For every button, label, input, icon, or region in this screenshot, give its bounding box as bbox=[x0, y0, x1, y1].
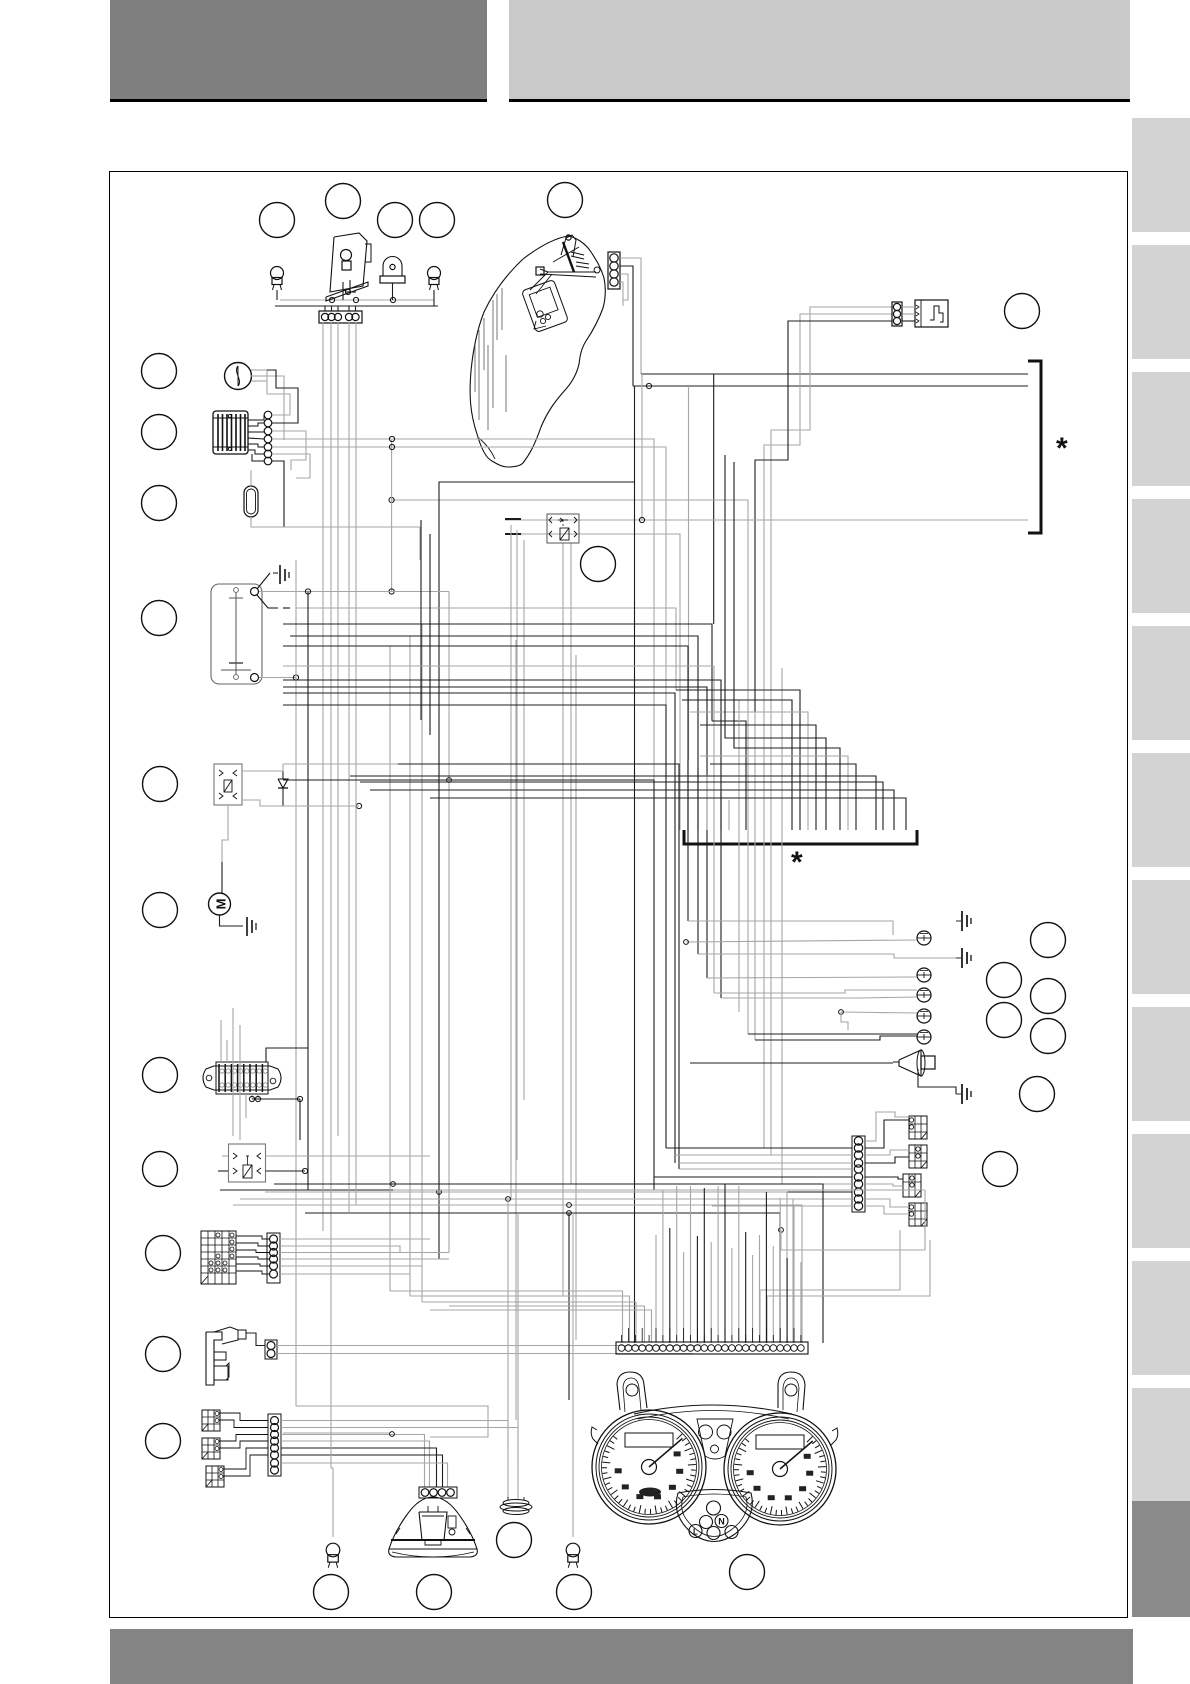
node bus junction a bbox=[329, 297, 334, 302]
wire headlight feed bbox=[515, 640, 517, 1420]
horn bbox=[893, 1050, 935, 1076]
fuel tank filler neck bbox=[553, 235, 579, 272]
wire fuel pump leads bbox=[620, 258, 641, 306]
fuel pump plate bbox=[522, 280, 569, 333]
node callout 24 bbox=[1020, 1077, 1055, 1112]
wire coil top lead bbox=[246, 1333, 265, 1346]
lamp tail light bbox=[326, 233, 371, 301]
node fuse junction 1 bbox=[249, 1096, 254, 1101]
wire switch strip right leads bbox=[281, 1421, 518, 1488]
relay right 3 bbox=[903, 1174, 921, 1197]
connector instrument pins bbox=[616, 1328, 808, 1354]
node tank drop junction bbox=[639, 517, 644, 522]
sensor temp bbox=[917, 1009, 931, 1023]
flasher unit bbox=[225, 363, 252, 390]
wire fuse route right bbox=[299, 1099, 301, 1140]
wire mid h1 bbox=[283, 624, 712, 721]
fusebox bbox=[203, 1062, 281, 1094]
fuel tank lower fold bbox=[479, 438, 495, 459]
wire fusebox verticals bbox=[221, 1008, 258, 1140]
wire horn ground bbox=[918, 1069, 956, 1094]
wire flasher leads bbox=[251, 370, 284, 440]
svg-text:N: N bbox=[718, 1517, 725, 1527]
relay right 4 bbox=[909, 1203, 927, 1226]
wire harness bundle A bbox=[323, 322, 356, 1468]
switch ignition contact top bbox=[251, 588, 259, 596]
wire tank-connector feed down bbox=[632, 277, 634, 386]
relay starter box bbox=[229, 1144, 266, 1182]
wire sensor feeds bbox=[684, 921, 956, 1040]
wire strip-b to pins bbox=[390, 1259, 652, 1343]
svg-text:*: * bbox=[791, 846, 803, 879]
node low j2 bbox=[437, 1190, 442, 1195]
wire coil out 1 bbox=[277, 1343, 700, 1346]
wire capacitor bottom bbox=[251, 517, 420, 527]
switch handlebar 1 bbox=[202, 1410, 220, 1431]
wire battery top lead bbox=[259, 591, 449, 593]
node callout 7 bbox=[142, 354, 177, 389]
wire low h2 bbox=[265, 1192, 787, 1343]
wire instrument bus y386 bbox=[633, 385, 1028, 387]
ground starter bbox=[247, 917, 256, 936]
wire relaybox drop 2 bbox=[570, 543, 572, 1184]
wire relay starter left bbox=[218, 1156, 228, 1171]
sensor side stand bbox=[917, 988, 931, 1002]
gauge logo blob bbox=[639, 1488, 661, 1497]
wire bus y386 drop bbox=[688, 386, 690, 760]
node callout 12 bbox=[143, 893, 178, 928]
svg-text:L: L bbox=[693, 1528, 698, 1537]
node callout 2 bbox=[326, 184, 361, 219]
node callout 9 bbox=[142, 486, 177, 521]
wire relay stub left 2 bbox=[505, 533, 521, 535]
wire bulb drop 2 bbox=[433, 290, 435, 306]
node junction y386 bbox=[646, 383, 651, 388]
wire relay bus 1190 bbox=[220, 1189, 393, 1191]
wire mid h7 bbox=[283, 693, 675, 1163]
wire cluster feed right bbox=[781, 1230, 925, 1250]
wire regulator out 3 bbox=[272, 431, 306, 470]
connector strip switches bbox=[268, 1414, 281, 1476]
wire y482 elbow bbox=[439, 482, 635, 1259]
wire relay-diode bottom bbox=[242, 800, 359, 806]
sensor oil pressure bbox=[917, 968, 931, 982]
wire mid h4 bbox=[283, 666, 714, 993]
wire sensor links bbox=[902, 307, 915, 321]
wire low h3 bbox=[240, 1199, 793, 1343]
fuel level sender rod bbox=[530, 252, 600, 294]
wire regulator leads bbox=[248, 415, 264, 461]
wire bulb drop bbox=[276, 290, 278, 300]
wire bus-to-connector drops bbox=[325, 306, 356, 311]
node callout 10 bbox=[142, 601, 177, 636]
wire battery bottom lead bbox=[259, 677, 296, 679]
wire regulator out 2 bbox=[267, 370, 298, 423]
wire main black vertical bbox=[307, 592, 309, 1191]
wire mid h10 bbox=[398, 764, 679, 1169]
node callout 27 bbox=[730, 1555, 765, 1590]
node fuse junction 3 bbox=[297, 1096, 302, 1101]
ground right 2 bbox=[956, 948, 971, 968]
wire fusebox out dark bbox=[266, 1048, 308, 1062]
wire strip right leads bbox=[280, 1239, 449, 1274]
switch handlebar 3 bbox=[206, 1466, 224, 1487]
wire relay pass y534 bbox=[505, 534, 680, 830]
ground right 1 bbox=[956, 911, 971, 931]
wire regulator out 1 bbox=[267, 381, 290, 415]
wire diode top right bbox=[283, 763, 398, 765]
lamp headlight bulb left bbox=[326, 1543, 340, 1568]
node batt junction 2 bbox=[293, 675, 298, 680]
node batt junction bbox=[305, 589, 310, 594]
instrument cluster body bbox=[617, 1372, 805, 1459]
wire harness C bbox=[511, 525, 576, 1400]
bracket harness middle bbox=[684, 830, 917, 844]
wire tail lamp leads bbox=[343, 280, 356, 300]
headlight housing bbox=[389, 1497, 478, 1557]
node bus junction d bbox=[345, 289, 350, 294]
wire speed-sensor line 3 bbox=[755, 321, 892, 712]
wire low h1 bbox=[274, 1184, 823, 1343]
node callout 3 bbox=[378, 203, 413, 238]
relay starter contacts bbox=[233, 1153, 261, 1178]
bracket harness right bbox=[1028, 361, 1041, 533]
wire pins right group bbox=[760, 1190, 930, 1343]
wire relaybox drop 1 bbox=[562, 543, 564, 1296]
node reg junction 2 bbox=[389, 444, 394, 449]
ground battery switch bbox=[273, 565, 289, 584]
relay lights box bbox=[214, 764, 242, 805]
wire harness B bbox=[390, 592, 449, 1303]
node callout 8 bbox=[142, 415, 177, 450]
wire mid h2 bbox=[290, 636, 698, 954]
fuel tank seam lines bbox=[475, 288, 506, 430]
capacitor oval bbox=[244, 486, 258, 517]
wire x391 link bbox=[391, 440, 393, 592]
wire main gray vertical bbox=[295, 560, 297, 1406]
node callout 13 bbox=[143, 1058, 178, 1093]
wire starter lead bbox=[221, 862, 223, 893]
wire relay starter right2 bbox=[266, 1170, 306, 1172]
wire starter ground lead bbox=[220, 915, 244, 926]
wire capacitor drop2 bbox=[419, 527, 421, 560]
wire capacitor top bbox=[250, 470, 252, 486]
connector lamp harness bbox=[319, 311, 362, 323]
wire switch lower lead bbox=[296, 608, 676, 690]
sensor speed box bbox=[915, 300, 948, 327]
node reg junction 1 bbox=[389, 436, 394, 441]
node callout 19 bbox=[1031, 923, 1066, 958]
wire bulb left drop bbox=[331, 1468, 333, 1537]
ground right 3 bbox=[956, 1084, 971, 1104]
wire bracket feeds bbox=[676, 455, 856, 1184]
wire tank drop 1 bbox=[634, 386, 636, 1343]
wire regulator bus y440 bbox=[272, 439, 654, 780]
node callout 28 bbox=[314, 1575, 349, 1610]
wire low h4 bbox=[233, 1205, 802, 1343]
lamp tail bulb right bbox=[566, 1543, 580, 1568]
wire bottom h B bbox=[296, 1406, 488, 1437]
svg-text:M: M bbox=[214, 899, 229, 910]
wire mid h3 bbox=[283, 646, 688, 921]
node relay junction bbox=[302, 1168, 307, 1173]
wire strip to relays bbox=[865, 1112, 909, 1214]
switch ignition contact bottom bbox=[251, 674, 259, 682]
wire regulator bus y447 bbox=[272, 447, 666, 705]
wire tank-connector feed down 2 bbox=[640, 277, 642, 374]
wire mid h6 bbox=[283, 687, 707, 978]
wire relay down bbox=[222, 805, 228, 862]
connector strip left bbox=[267, 1233, 280, 1283]
diode symbol bbox=[278, 764, 288, 806]
node bus junction c bbox=[390, 297, 395, 302]
node bus junction b bbox=[353, 297, 358, 302]
grommet cap bbox=[500, 1497, 532, 1515]
node callout 16 bbox=[146, 1337, 181, 1372]
lamp front turn signal right bbox=[428, 267, 441, 291]
relay lights contacts bbox=[219, 770, 237, 799]
coil ignition bbox=[206, 1327, 246, 1385]
wire mid h8 bbox=[283, 705, 666, 1148]
wire bottom h A bbox=[283, 1432, 390, 1434]
node callout 29 bbox=[417, 1575, 452, 1610]
connector regulator pins bbox=[264, 411, 272, 465]
gauge speedometer bbox=[724, 1413, 836, 1525]
fuel tank outline bbox=[470, 236, 605, 467]
node callout 25 bbox=[983, 1152, 1018, 1187]
node x391 junction bbox=[389, 589, 394, 594]
node callout 26 bbox=[497, 1523, 532, 1558]
wire instrument bus y374 bbox=[641, 373, 1028, 375]
wire strip feeds left bbox=[654, 1148, 852, 1206]
node callout 20 bbox=[987, 963, 1022, 998]
node callout 11 bbox=[143, 767, 178, 802]
wire bracket right feeds bbox=[350, 776, 906, 830]
wire y500 long bbox=[392, 500, 748, 706]
connector strip right bbox=[852, 1136, 865, 1212]
node callout 30 bbox=[557, 1575, 592, 1610]
node low j4 bbox=[567, 1203, 572, 1208]
wire indicator drop bbox=[392, 283, 394, 300]
wire harness B2 bbox=[421, 520, 430, 735]
wire fusebox bottom bus bbox=[252, 1098, 300, 1100]
switch ignition lever bbox=[257, 573, 290, 608]
wire low h5 bbox=[305, 1213, 780, 1343]
lamp front turn signal left bbox=[271, 267, 284, 291]
relay right 2 bbox=[909, 1145, 927, 1168]
node callout 14 bbox=[143, 1152, 178, 1187]
wire cap drop 1 bbox=[507, 1199, 509, 1500]
cluster side flanges bbox=[591, 1427, 838, 1445]
wire lamp bus 1 bbox=[280, 299, 434, 301]
node bottom jA bbox=[390, 1432, 395, 1437]
node callout 1 bbox=[260, 203, 295, 238]
connector coil bbox=[265, 1340, 277, 1359]
wire tank drop 2 bbox=[641, 374, 643, 520]
sensor rear brake bbox=[917, 1030, 931, 1044]
relay right 1 bbox=[909, 1116, 927, 1139]
switch handlebar 2 bbox=[202, 1438, 220, 1459]
wire grid to strip bbox=[236, 1236, 269, 1274]
wire mid h9 bbox=[283, 780, 654, 1190]
node callout 18 bbox=[581, 547, 616, 582]
cluster keypad bbox=[676, 1490, 752, 1542]
connector speed sensor bbox=[892, 302, 902, 326]
connector block grid bbox=[201, 1231, 236, 1284]
node callout 17 bbox=[146, 1424, 181, 1459]
wire relay starter right1 bbox=[266, 1155, 431, 1157]
wire lamp bus 2 bbox=[275, 305, 438, 307]
node callout 6 bbox=[1005, 294, 1040, 329]
node diode junction bbox=[356, 803, 361, 808]
lamp indicator bbox=[380, 257, 405, 284]
wire bulb right drop bbox=[572, 1213, 574, 1537]
node callout 23 bbox=[1031, 1019, 1066, 1054]
sensor neutral bbox=[917, 931, 931, 945]
motor starter bbox=[209, 893, 231, 915]
node low j5 bbox=[567, 1211, 572, 1216]
gauge tachometer bbox=[592, 1410, 706, 1524]
wire speed-sensor line 1 bbox=[771, 307, 892, 683]
wire bus y374 drop bbox=[713, 374, 715, 624]
node low j3 bbox=[506, 1197, 511, 1202]
node callout 22 bbox=[987, 1003, 1022, 1038]
svg-text:*: * bbox=[1056, 432, 1068, 465]
wire regulator out 5 bbox=[272, 461, 284, 527]
node low j1 bbox=[391, 1182, 396, 1187]
node callout 15 bbox=[146, 1236, 181, 1271]
wire relay stub left 1 bbox=[505, 518, 521, 520]
regulator rectifier bbox=[213, 411, 248, 454]
battery cell line bbox=[221, 588, 251, 680]
wire speed-sensor line 2 bbox=[764, 314, 892, 676]
wire regulator out 4 bbox=[272, 454, 310, 478]
node y500 junction bbox=[389, 497, 394, 502]
wire cap drop 2 bbox=[517, 1213, 519, 1500]
node low j6 bbox=[779, 1228, 784, 1233]
wire sensors bus y1190 bbox=[654, 1189, 800, 1191]
node callout 21 bbox=[1031, 979, 1066, 1014]
node callout 5 bbox=[548, 183, 583, 218]
wire mid h5 bbox=[283, 680, 721, 998]
wire cluster pin drops bbox=[656, 1184, 801, 1343]
connector fuel pump bbox=[608, 252, 620, 289]
wire relay pass y520 bbox=[505, 519, 1028, 521]
wire low h6 bbox=[393, 1189, 925, 1191]
wire horn feed bbox=[690, 1062, 893, 1064]
battery box bbox=[211, 584, 262, 684]
node callout 4 bbox=[420, 203, 455, 238]
wire coil out 2 bbox=[277, 1353, 693, 1355]
wire diode bottom route bbox=[283, 805, 359, 807]
wire switch leads bbox=[219, 1413, 268, 1476]
relay turn box bbox=[547, 514, 579, 543]
node fuse junction 2 bbox=[255, 1096, 260, 1101]
connector headlight bbox=[419, 1487, 457, 1498]
node mid junction bbox=[447, 778, 452, 783]
wire relay-diode top bbox=[242, 764, 283, 771]
